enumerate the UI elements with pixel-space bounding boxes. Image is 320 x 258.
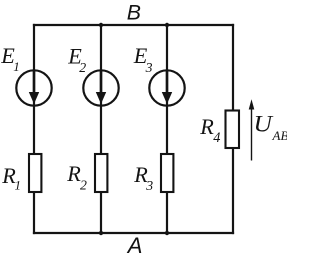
wire right branch (R4 branch) [232,24,234,234]
svg-text:3: 3 [145,178,153,193]
svg-text:3: 3 [145,60,153,75]
resistor R1 body [29,154,41,192]
wire left branch (E1/R1 branch) [33,24,35,234]
EMF source E2 arrow shaft [100,71,103,96]
wire branch 2 (E2/R2 branch) [100,25,102,233]
EMF source E2 circle [83,70,118,105]
EMF source E2 arrowhead [96,92,106,104]
svg-text:2: 2 [79,60,86,75]
EMF source E3 arrowhead [162,92,172,104]
svg-text:A: A [126,233,143,258]
svg-text:AB: AB [272,128,288,143]
EMF source E1 circle [16,70,51,105]
wire top bus (node B) [33,24,234,26]
wire bottom bus (node A) [33,232,234,234]
svg-text:U: U [254,111,275,137]
svg-text:2: 2 [80,178,87,193]
resistor R3 body [161,154,173,192]
voltage arrow U_AB head [249,99,255,109]
junction dot node B / branch 3 [165,23,169,27]
EMF source E3 arrow shaft [166,71,169,96]
junction dot node B / branch 2 [99,23,103,27]
svg-text:1: 1 [15,178,22,193]
svg-text:R: R [199,114,214,139]
resistor R4 body [226,111,240,149]
junction dot node A / branch 2 [99,231,103,235]
EMF source E3 circle [149,70,184,105]
EMF source E1 arrow shaft [33,71,36,96]
junction dot node A / branch 3 [165,231,169,235]
EMF source E1 arrowhead [29,92,39,104]
svg-text:1: 1 [13,59,20,74]
voltage arrow U_AB shaft [251,106,253,161]
svg-text:4: 4 [213,130,220,146]
wire branch 3 (E3/R3 branch) [166,25,168,233]
svg-text:B: B [127,1,141,25]
resistor R2 body [95,154,107,192]
